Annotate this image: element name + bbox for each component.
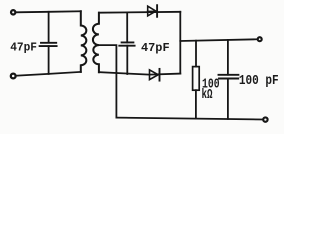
wire output node line bbox=[180, 39, 257, 41]
diode D1 cathode bar bbox=[156, 5, 158, 17]
wire secondary center tap bbox=[99, 45, 117, 118]
wire top-left rail bbox=[16, 11, 81, 12]
terminal BL bbox=[11, 74, 16, 79]
resistor R1 body bbox=[193, 67, 200, 91]
svg-text:100 pF: 100 pF bbox=[239, 74, 279, 89]
svg-text:kΩ: kΩ bbox=[202, 87, 213, 103]
capacitor C1 47pF plates bbox=[40, 43, 57, 46]
capacitor C3 100pF plates bbox=[219, 75, 239, 79]
diode D1 wire stub bbox=[148, 11, 156, 13]
capacitor C3 100pF bottom wire bbox=[227, 79, 229, 119]
wire secondary bottom to diode D2 bbox=[99, 72, 180, 74]
resistor R1 top wire bbox=[195, 41, 197, 67]
capacitor C2 47pF top wire bbox=[126, 12, 128, 42]
transformer T1 secondary winding bbox=[93, 13, 99, 72]
diode D2 triangle bbox=[150, 70, 159, 80]
capacitor C2 47pF plates bbox=[119, 42, 134, 45]
capacitor C1 47pF top wire bbox=[48, 12, 50, 43]
svg-text:47pF: 47pF bbox=[10, 41, 37, 54]
terminal BR bbox=[263, 117, 267, 121]
diode D1 triangle bbox=[148, 6, 156, 16]
wire top rail right bbox=[99, 11, 180, 14]
diode D2 cathode bar bbox=[159, 69, 161, 81]
capacitor C1 47pF bottom wire bbox=[48, 46, 50, 74]
terminal TL bbox=[11, 10, 15, 14]
wire bottom-left rail bbox=[16, 72, 81, 76]
resistor R1 bottom wire bbox=[195, 90, 197, 118]
svg-text:47pF: 47pF bbox=[141, 41, 170, 55]
terminal TR bbox=[258, 37, 262, 41]
capacitor C3 100pF top wire bbox=[227, 40, 229, 75]
transformer T1 primary winding bbox=[81, 11, 87, 72]
wire bottom rail right bbox=[116, 118, 263, 120]
wire rectifier output vertical bbox=[179, 12, 181, 74]
capacitor C2 47pF bottom wire bbox=[126, 46, 128, 74]
